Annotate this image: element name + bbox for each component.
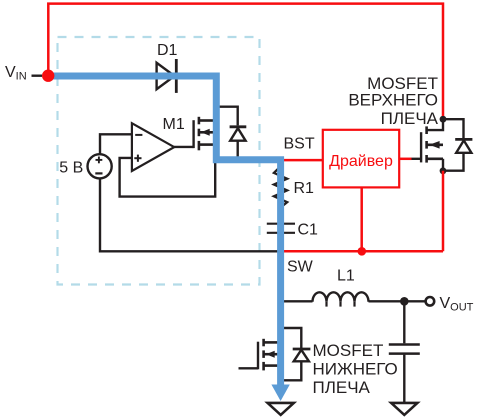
- ground left: [268, 403, 294, 415]
- inductor L1: [313, 292, 369, 302]
- wire 5V bottom to SW-side return: [100, 179, 278, 252]
- red wire source rail down: [442, 171, 445, 252]
- svg-text:L1: L1: [337, 268, 355, 285]
- transistor MOSFET верхнего плеча: [427, 119, 443, 130]
- svg-text:ПЛЕЧА: ПЛЕЧА: [313, 378, 371, 397]
- capacitor output: [389, 343, 420, 346]
- svg-text:MOSFET: MOSFET: [313, 341, 384, 360]
- wire V_IN stub: [32, 74, 43, 76]
- wire low-side MOSFET drain loop: [281, 328, 301, 348]
- svg-text:ВЕРХНЕГО: ВЕРХНЕГО: [348, 91, 438, 110]
- diode across M1: [230, 125, 247, 128]
- node SW red dot: [358, 247, 367, 256]
- node drain dot: [440, 116, 447, 123]
- diode D1: [157, 63, 175, 89]
- wire feedback op-amp + input to M1 source: [120, 158, 216, 197]
- wire Vout node down to output capacitor: [403, 301, 405, 343]
- blue highlighted current path: [50, 76, 281, 386]
- svg-text:C1: C1: [298, 222, 319, 239]
- wire low-side diode anode loop: [281, 361, 301, 380]
- svg-text:SW: SW: [287, 259, 314, 276]
- wire M1 diode anode to BST rail: [236, 141, 238, 158]
- red wire driver bottom to SW line: [360, 187, 363, 251]
- wire SW to L1 and Vout: [282, 300, 313, 302]
- red wire BST to driver: [283, 159, 323, 162]
- wire M1 drain branch to parallel diode: [217, 107, 238, 126]
- body diode low side: [293, 348, 311, 351]
- node Vout dot: [400, 297, 409, 306]
- driver box: [323, 130, 399, 188]
- transistor M1: [194, 117, 214, 151]
- svg-text:BST: BST: [284, 136, 315, 153]
- terminal Vout: [426, 297, 435, 306]
- resistor R1 (zigzag, under blue wire): [274, 166, 287, 207]
- node source dot: [440, 167, 447, 174]
- voltage source 5 В: [88, 154, 112, 178]
- ground right: [391, 403, 417, 415]
- svg-text:5 В: 5 В: [59, 159, 83, 176]
- transistor MOSFET нижнего плеча: [258, 339, 279, 371]
- svg-text:M1: M1: [163, 116, 185, 133]
- svg-text:R1: R1: [294, 180, 315, 197]
- body diode high side: [443, 119, 464, 138]
- wire 5V top to op-amp inverting input: [100, 134, 132, 154]
- blue arrowhead: [271, 385, 289, 402]
- red wire driver output to gate: [399, 158, 411, 161]
- wire op-amp output to M1 gate: [174, 146, 194, 148]
- red wire SW line: [283, 250, 443, 253]
- svg-text:D1: D1: [157, 42, 178, 59]
- svg-text:Драйвер: Драйвер: [329, 153, 393, 170]
- node V_IN red dot: [42, 70, 54, 82]
- capacitor C1: [267, 223, 295, 225]
- svg-text:НИЖНЕГО: НИЖНЕГО: [313, 360, 398, 379]
- wire low-side gate stub: [239, 367, 259, 369]
- dashed controller boundary box: [58, 37, 260, 285]
- svg-text:ПЛЕЧА: ПЛЕЧА: [381, 109, 439, 128]
- op-amp U1: [132, 123, 174, 171]
- red input rail V_IN to top to high-side drain: [48, 4, 443, 116]
